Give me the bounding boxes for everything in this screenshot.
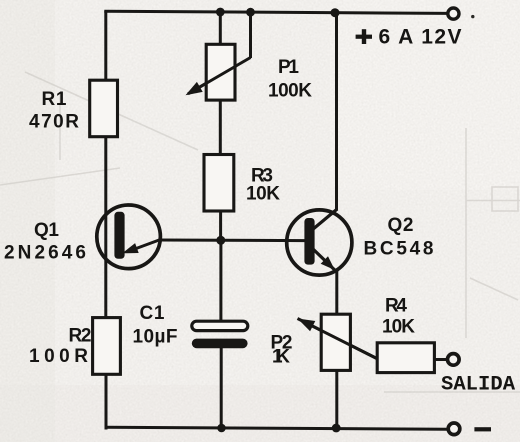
potentiometer P1 body [206,44,235,100]
svg-text:SALIDA: SALIDA [441,373,516,396]
svg-text:R2: R2 [69,326,92,347]
resistor R4 [377,343,434,373]
svg-text:P1: P1 [278,57,299,78]
svg-text:100R: 100R [29,346,88,367]
node top Q2 collector [331,8,340,17]
svg-text:Q1: Q1 [34,220,59,241]
wire R1 to R2 through Q1 [104,136,107,319]
wire P1 wiper diagonal [188,58,251,94]
wire top bus [104,11,447,13]
potentiometer P1 arrowhead [186,82,203,95]
wire R2 bottom lead [105,374,108,430]
speck near +V terminal [471,15,474,18]
wire P2 wiper diagonal to R4 [298,319,378,360]
capacitor C1 bottom plate [192,339,248,349]
wire bottom bus [105,427,448,429]
resistor R2 [93,318,121,375]
transistor Q1 base bar [114,212,124,259]
capacitor C1 top plate [192,321,248,330]
wire Q2 emitter to P2 [335,271,338,316]
wire left vertical (R1 top lead) [104,11,107,81]
svg-text:C1: C1 [140,303,165,324]
wire Q2 collector vertical [335,12,338,210]
node middle R3/base [216,236,225,245]
svg-text:10K: 10K [246,184,280,205]
resistor R1 [90,80,118,137]
potentiometer P2 arrowhead [298,319,316,332]
node top P1 [216,8,225,17]
svg-text:R1: R1 [42,89,67,110]
wire R3 to middle node [219,210,222,241]
node top P1 wiper [246,8,255,17]
wire P1 to R3 [219,100,222,156]
terminal +V [448,8,459,19]
wire middle horizontal (Q1 emitter to Q2 base) [159,239,306,243]
svg-text:100K: 100K [268,81,312,102]
resistor R3 [204,155,234,212]
svg-text:1K: 1K [272,347,290,368]
potentiometer P2 wiper line through body [303,321,378,359]
ghost artifacts (print-through) [0,72,520,392]
node bottom P2 [332,424,341,433]
transistor Q2 collector line [312,209,337,230]
transistor Q2 emitter arrowhead [321,256,335,270]
transistor Q1 (UJT) body circle [97,205,161,269]
transistor Q2 base bar [304,218,314,265]
terminal SALIDA [448,354,460,366]
wire P1 top lead [219,12,222,45]
svg-text:10µF: 10µF [133,327,178,348]
supply plus sign [356,29,372,44]
transistor Q2 body circle [287,210,352,275]
wire P1 wiper vertical [249,12,252,58]
wire C1 to bottom bus [220,347,223,428]
transistor Q1 emitter line [128,240,161,252]
svg-text:Q2: Q2 [388,215,414,236]
svg-text:BC548: BC548 [364,239,434,260]
transistor Q2 emitter line [313,249,338,273]
node bottom C1 [217,424,226,433]
svg-text:10K: 10K [382,317,415,338]
transistor Q1 emitter arrowhead [122,243,138,253]
wire middle node to C1 [219,240,222,322]
wire P2 to bottom bus [335,370,338,429]
svg-text:470R: 470R [29,112,79,133]
potentiometer P1 wiper line through body [193,66,236,91]
svg-text:R4: R4 [385,296,407,317]
terminal negative [448,423,460,435]
wire R4 to output terminal [434,358,447,361]
negative terminal minus sign [474,427,491,431]
potentiometer P2 body [321,314,350,370]
